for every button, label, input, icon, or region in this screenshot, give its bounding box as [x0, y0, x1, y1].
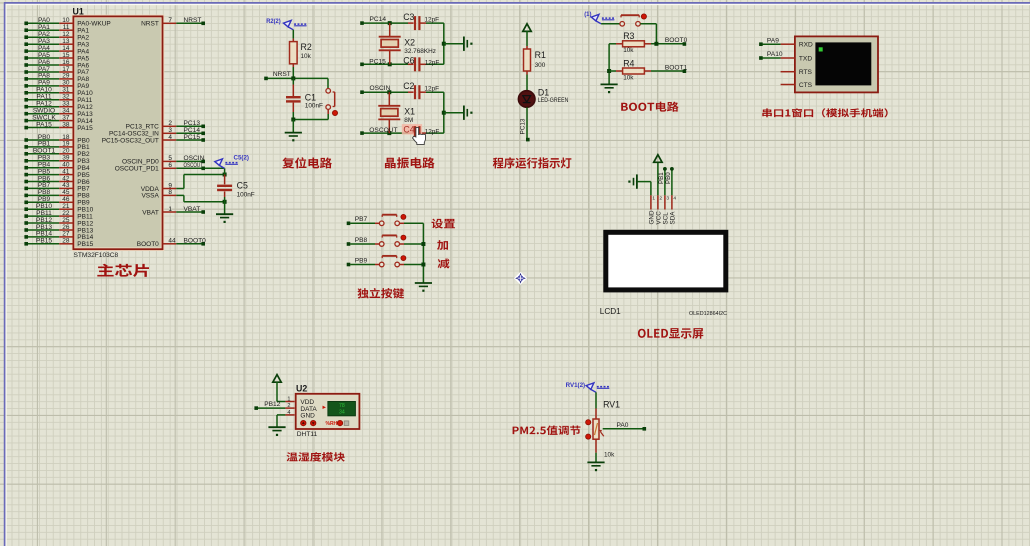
svg-text:34: 34: [339, 409, 345, 415]
svg-text:PB0: PB0: [665, 172, 672, 184]
svg-text:8: 8: [168, 189, 172, 196]
svg-text:100nF: 100nF: [305, 103, 323, 110]
svg-text:C1: C1: [305, 92, 316, 102]
svg-text:PB9: PB9: [355, 257, 368, 264]
svg-text:12pF: 12pF: [425, 86, 440, 93]
svg-text:PA6: PA6: [38, 59, 50, 66]
svg-text:2: 2: [659, 196, 662, 202]
svg-text:25: 25: [62, 217, 70, 224]
svg-text:NRST: NRST: [141, 21, 159, 28]
svg-text:78: 78: [339, 403, 345, 409]
svg-text:▶: ▶: [323, 404, 327, 409]
svg-text:NRST: NRST: [184, 17, 202, 24]
svg-text:RTS: RTS: [799, 69, 813, 76]
svg-text:CTS: CTS: [799, 82, 813, 89]
svg-text:OSCOUT: OSCOUT: [184, 162, 204, 169]
svg-text:28: 28: [62, 238, 70, 245]
svg-text:PB7: PB7: [77, 186, 90, 193]
svg-text:3: 3: [666, 196, 669, 202]
svg-text:12pF: 12pF: [425, 129, 440, 136]
svg-text:BOOT1: BOOT1: [33, 148, 56, 155]
svg-text:33: 33: [62, 101, 70, 108]
svg-text:DHT11: DHT11: [297, 431, 318, 438]
svg-text:GND: GND: [649, 210, 656, 224]
svg-text:4: 4: [673, 196, 676, 202]
svg-text:TXD: TXD: [799, 55, 812, 62]
svg-text:PC15: PC15: [369, 58, 386, 65]
svg-text:PA1: PA1: [77, 28, 89, 35]
svg-text:32.768KHz: 32.768KHz: [404, 48, 436, 55]
svg-text:12: 12: [62, 31, 70, 38]
svg-text:16: 16: [62, 59, 70, 66]
svg-text:C5(2): C5(2): [234, 155, 249, 162]
svg-text:VBAT: VBAT: [184, 206, 201, 213]
svg-text:R4: R4: [623, 58, 634, 68]
svg-text:PA0: PA0: [617, 422, 629, 429]
svg-text:SDA: SDA: [670, 211, 677, 225]
svg-text:PA9: PA9: [767, 37, 779, 44]
svg-text:PB15: PB15: [77, 241, 93, 248]
svg-text:OLED12864I2C: OLED12864I2C: [689, 311, 727, 317]
svg-text:X2: X2: [404, 38, 415, 48]
svg-text:44: 44: [168, 238, 176, 245]
svg-text:12pF: 12pF: [425, 60, 440, 67]
svg-text:STM32F103C8: STM32F103C8: [74, 252, 119, 259]
svg-text:PA5: PA5: [38, 52, 50, 59]
svg-text:SCL: SCL: [663, 212, 670, 225]
svg-text:R3: R3: [623, 31, 634, 41]
svg-text:PB12: PB12: [264, 401, 280, 408]
svg-text:PA2: PA2: [77, 35, 89, 42]
svg-text:PA10: PA10: [767, 51, 783, 58]
svg-text:6: 6: [168, 162, 172, 169]
svg-text:PA2: PA2: [38, 31, 50, 38]
svg-text:10k: 10k: [301, 53, 312, 60]
svg-text:R2: R2: [301, 42, 312, 52]
svg-text:PA0: PA0: [38, 17, 50, 24]
svg-text:BOOT1: BOOT1: [665, 64, 688, 71]
svg-text:NRST: NRST: [273, 71, 291, 78]
svg-text:PB12: PB12: [36, 217, 52, 224]
svg-text:LCD1: LCD1: [600, 307, 621, 316]
svg-text:OSCIN: OSCIN: [370, 85, 391, 92]
svg-text:PB12: PB12: [77, 220, 93, 227]
svg-text:R1: R1: [535, 50, 546, 60]
svg-text:OSCOUT_PD1: OSCOUT_PD1: [115, 166, 159, 173]
svg-text:U1: U1: [73, 7, 84, 17]
svg-text:1: 1: [652, 196, 655, 202]
svg-text:PC13_RTC: PC13_RTC: [126, 124, 159, 131]
svg-text:10k: 10k: [623, 74, 634, 81]
svg-text:PA12: PA12: [36, 101, 52, 108]
svg-text:20: 20: [62, 148, 70, 155]
svg-text:PC13: PC13: [184, 120, 201, 127]
svg-text:D1: D1: [538, 87, 549, 97]
svg-text:BOOT0: BOOT0: [184, 238, 207, 245]
svg-text:4: 4: [287, 410, 290, 416]
svg-text:OSCOUT: OSCOUT: [369, 127, 397, 134]
svg-text:2: 2: [168, 120, 172, 127]
svg-text:12pF: 12pF: [425, 17, 440, 24]
svg-text:10k: 10k: [623, 47, 634, 54]
svg-text:PA8: PA8: [38, 73, 50, 80]
svg-text:29: 29: [62, 73, 70, 80]
svg-text:PB7: PB7: [355, 216, 368, 223]
svg-text:C3: C3: [403, 12, 414, 22]
svg-text:PA11: PA11: [77, 97, 92, 104]
svg-text:4: 4: [168, 134, 172, 141]
svg-text:PA7: PA7: [77, 69, 89, 76]
svg-text:10k: 10k: [604, 452, 615, 459]
svg-text:1: 1: [168, 206, 172, 213]
svg-text:BOOT0: BOOT0: [137, 241, 159, 248]
svg-text:PC14: PC14: [370, 16, 387, 23]
svg-text:PA11: PA11: [36, 94, 51, 101]
svg-text:10: 10: [62, 17, 70, 24]
svg-text:U2: U2: [296, 384, 307, 394]
svg-text:7: 7: [168, 17, 172, 24]
svg-text:GND: GND: [300, 413, 315, 420]
svg-text:PC15: PC15: [184, 134, 201, 141]
svg-text:C2: C2: [403, 81, 414, 91]
svg-text:LED-GREEN: LED-GREEN: [538, 97, 569, 104]
svg-text:C5: C5: [237, 180, 248, 190]
svg-text:VSSA: VSSA: [141, 193, 159, 200]
svg-text:PB8: PB8: [355, 237, 368, 244]
svg-text:C4: C4: [403, 124, 414, 134]
svg-text:15: 15: [62, 52, 70, 59]
svg-text:38: 38: [62, 121, 70, 128]
svg-text:PA15: PA15: [36, 121, 52, 128]
svg-text:BOOT0: BOOT0: [665, 37, 688, 44]
svg-text:VCC: VCC: [656, 211, 663, 225]
svg-text:RV1: RV1: [603, 400, 620, 410]
svg-text:R2(2): R2(2): [266, 18, 281, 25]
svg-text:100nF: 100nF: [237, 192, 255, 199]
svg-text:PC15-OSC32_OUT: PC15-OSC32_OUT: [102, 137, 159, 144]
svg-text:X1: X1: [404, 107, 415, 117]
svg-text:RV1(2): RV1(2): [566, 382, 586, 389]
svg-text:PB15: PB15: [36, 238, 52, 245]
svg-text:PC13: PC13: [520, 118, 527, 134]
svg-text:RXD: RXD: [799, 42, 813, 49]
svg-text:1: 1: [287, 397, 290, 403]
svg-text:43: 43: [62, 182, 70, 189]
svg-text:PA12: PA12: [77, 104, 93, 111]
svg-text:PB2: PB2: [77, 151, 90, 158]
svg-text:PB1: PB1: [658, 172, 665, 184]
svg-text:C6: C6: [403, 56, 414, 66]
svg-text:PB7: PB7: [38, 182, 51, 189]
svg-text:8M: 8M: [404, 117, 413, 124]
svg-text:PA15: PA15: [77, 125, 93, 132]
svg-text:VBAT: VBAT: [142, 209, 159, 216]
svg-text:2: 2: [287, 403, 290, 409]
svg-text:PA5: PA5: [77, 55, 89, 62]
svg-text:PA8: PA8: [77, 76, 89, 83]
svg-text:300: 300: [535, 62, 546, 69]
svg-text:32: 32: [62, 94, 70, 101]
svg-text:%RH: %RH: [326, 421, 338, 427]
